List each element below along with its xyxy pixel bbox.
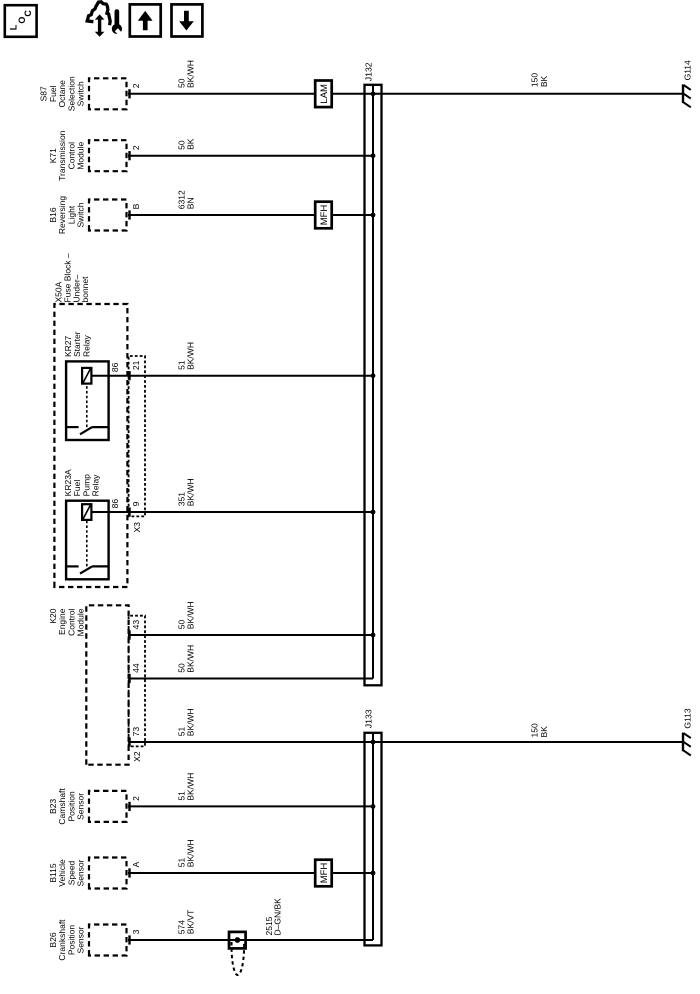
svg-text:Sensor: Sensor xyxy=(76,926,86,953)
svg-text:BK/WH: BK/WH xyxy=(186,478,196,506)
svg-text:9: 9 xyxy=(131,501,141,506)
svg-text:2: 2 xyxy=(131,796,141,801)
svg-text:44: 44 xyxy=(131,663,141,673)
svg-text:BK/WH: BK/WH xyxy=(186,645,196,673)
svg-text:C: C xyxy=(23,10,33,17)
svg-text:O: O xyxy=(17,17,27,24)
svg-text:73: 73 xyxy=(131,727,141,737)
svg-text:3: 3 xyxy=(131,929,141,934)
svg-text:G114: G114 xyxy=(683,60,693,80)
svg-text:L: L xyxy=(9,24,19,30)
svg-text:Sensor: Sensor xyxy=(76,793,86,820)
svg-text:BK: BK xyxy=(186,138,196,150)
svg-text:Module: Module xyxy=(76,608,86,636)
svg-text:B: B xyxy=(131,203,141,209)
svg-text:2: 2 xyxy=(131,145,141,150)
svg-text:BK/WH: BK/WH xyxy=(186,60,196,88)
svg-text:BK/VT: BK/VT xyxy=(186,910,196,935)
svg-text:Module: Module xyxy=(76,141,86,169)
svg-text:A: A xyxy=(131,861,141,867)
svg-text:BK/WH: BK/WH xyxy=(186,601,196,629)
svg-text:21: 21 xyxy=(131,360,141,370)
svg-text:J132: J132 xyxy=(364,62,374,81)
svg-text:D–GN/BK: D–GN/BK xyxy=(273,898,283,936)
svg-text:bonnet: bonnet xyxy=(80,276,90,303)
svg-text:150: 150 xyxy=(530,73,540,87)
svg-text:2: 2 xyxy=(131,83,141,88)
svg-text:150: 150 xyxy=(530,723,540,737)
svg-text:MFH: MFH xyxy=(319,205,330,226)
svg-text:86: 86 xyxy=(110,362,120,372)
svg-text:BK/WH: BK/WH xyxy=(186,839,196,867)
svg-text:Relay: Relay xyxy=(81,335,91,357)
svg-text:Switch: Switch xyxy=(76,202,86,227)
svg-text:Sensor: Sensor xyxy=(76,859,86,886)
svg-text:43: 43 xyxy=(131,620,141,630)
svg-text:86: 86 xyxy=(110,499,120,509)
svg-text:BK: BK xyxy=(539,726,549,738)
svg-text:BN: BN xyxy=(186,197,196,209)
svg-text:BK/WH: BK/WH xyxy=(186,773,196,801)
svg-text:Switch: Switch xyxy=(76,81,86,106)
svg-text:BK: BK xyxy=(539,75,549,87)
svg-text:BK/WH: BK/WH xyxy=(186,708,196,736)
svg-text:G113: G113 xyxy=(683,708,693,728)
svg-text:J133: J133 xyxy=(364,709,374,728)
svg-text:MFH: MFH xyxy=(319,863,330,884)
svg-text:Relay: Relay xyxy=(91,474,101,496)
svg-text:X3: X3 xyxy=(132,522,142,533)
svg-text:LAM: LAM xyxy=(319,84,330,104)
svg-text:BK/WH: BK/WH xyxy=(186,342,196,370)
svg-text:X2: X2 xyxy=(132,751,142,762)
